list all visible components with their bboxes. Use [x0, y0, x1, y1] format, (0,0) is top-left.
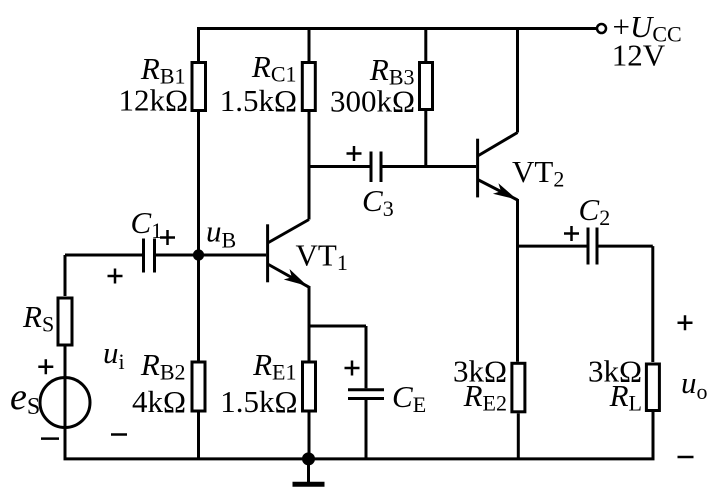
- wire RC1 top stub: [308, 27, 311, 61]
- svg-text:RE1: RE1: [252, 347, 296, 385]
- plus sign at ui: [108, 269, 123, 284]
- svg-text:C2: C2: [579, 192, 611, 230]
- resistor RB2: [192, 362, 205, 411]
- wire C3 left segment: [309, 165, 370, 168]
- svg-text:12kΩ: 12kΩ: [118, 83, 188, 118]
- wire RB3 top stub: [424, 27, 427, 61]
- svg-text:1.5kΩ: 1.5kΩ: [220, 384, 297, 419]
- svg-text:C1: C1: [131, 205, 163, 243]
- wire VT1 base: [199, 254, 267, 257]
- svg-text:300kΩ: 300kΩ: [330, 84, 415, 119]
- plus sign at C1: [160, 230, 175, 245]
- wire RE2 bottom: [517, 413, 520, 459]
- wire CE bottom lead: [365, 400, 368, 459]
- svg-text:RS: RS: [22, 299, 54, 337]
- resistor RB3: [420, 63, 433, 110]
- resistor RE1: [303, 362, 316, 411]
- svg-text:uo: uo: [681, 365, 708, 404]
- svg-text:4kΩ: 4kΩ: [132, 384, 186, 419]
- wire left rail from C1 wire down through eS: [64, 255, 67, 296]
- svg-text:CE: CE: [392, 379, 426, 417]
- resistor RS: [58, 298, 72, 345]
- wire RS bottom through source eS to bottom rail: [64, 344, 67, 459]
- wire bottom rail: [64, 457, 655, 460]
- resistor RB1: [192, 63, 206, 111]
- wire RC1 bottom to VT1 collector: [308, 112, 311, 220]
- ground junction dot: [302, 452, 315, 465]
- wire RE1 bottom: [308, 413, 311, 459]
- capacitor C1: [144, 239, 155, 273]
- wire VT2 collector vertical: [516, 27, 519, 133]
- minus sign at uo: [678, 456, 694, 459]
- resistor RC1: [302, 63, 315, 111]
- svg-text:12V: 12V: [612, 38, 666, 73]
- resistor RL: [646, 364, 659, 411]
- svg-text:C3: C3: [362, 183, 394, 221]
- svg-text:uB: uB: [206, 214, 236, 253]
- wire C1 left segment: [65, 254, 142, 257]
- capacitor CE: [348, 390, 384, 399]
- transistor VT2: [476, 139, 479, 198]
- wire RL top lead: [651, 246, 654, 362]
- resistor RE2: [512, 363, 525, 412]
- wire CE top lead: [365, 326, 368, 388]
- plus sign at CE: [345, 361, 360, 376]
- svg-text:RB2: RB2: [140, 347, 186, 385]
- svg-text:RC1: RC1: [251, 49, 297, 87]
- wire RL bottom: [652, 412, 655, 459]
- svg-text:1.5kΩ: 1.5kΩ: [220, 83, 297, 118]
- capacitor C3: [371, 152, 381, 183]
- power terminal circle: [597, 24, 606, 33]
- wire RB3 bottom: [424, 111, 427, 167]
- svg-text:ui: ui: [103, 335, 125, 374]
- wire RB1 bottom to node uB to RB2: [197, 112, 200, 361]
- wire C3 right segment to VT2 base: [383, 165, 477, 168]
- wire C1 right segment: [156, 254, 199, 257]
- plus sign at uo: [678, 315, 693, 330]
- wire C2 left segment: [518, 245, 587, 248]
- svg-text:VT2: VT2: [512, 154, 564, 192]
- transistor VT1: [266, 224, 269, 282]
- wire C2 right segment: [599, 245, 653, 248]
- node uB junction dot: [193, 249, 204, 260]
- plus sign at C3: [347, 146, 362, 161]
- minus sign at eS: [41, 437, 59, 440]
- wire RB2 bottom: [197, 413, 200, 459]
- wire RB1 top stub: [197, 27, 200, 61]
- wire VT2 emitter vertical: [516, 199, 519, 362]
- source eS circle: [40, 378, 90, 428]
- svg-text:eS: eS: [10, 376, 40, 420]
- ground: [307, 459, 310, 482]
- wire CE branch horizontal: [309, 325, 366, 328]
- capacitor C2: [588, 228, 597, 265]
- minus sign at ui: [111, 433, 127, 436]
- wire VT1 emitter vertical: [308, 286, 311, 361]
- plus sign at C2: [564, 226, 579, 241]
- svg-text:VT1: VT1: [296, 238, 348, 276]
- wire top rail: [199, 27, 598, 30]
- plus sign at eS: [38, 359, 53, 374]
